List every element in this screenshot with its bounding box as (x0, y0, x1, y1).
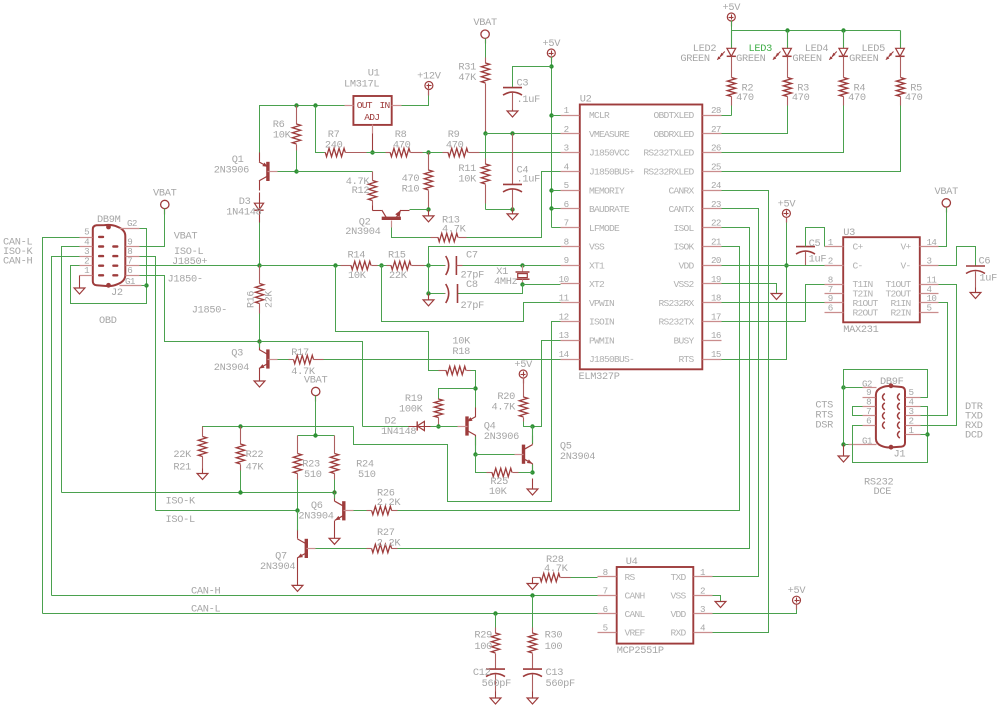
svg-text:R17: R17 (291, 347, 309, 359)
svg-text:R21: R21 (173, 462, 191, 474)
wire VPWIN tap drop (382, 266, 561, 322)
node J1850BUS+ branch junction (333, 263, 337, 267)
resistor R9 470 (443, 152, 449, 154)
node Q4 collector / Q5 base junction (473, 452, 477, 456)
wire R15 to VSS node (425, 265, 429, 267)
pin 11 T1OUT stub of U3 (920, 284, 939, 286)
node +5V / C3 junction (549, 64, 553, 68)
svg-text:VSS: VSS (589, 242, 605, 253)
svg-text:GREEN: GREEN (849, 53, 879, 65)
wire G2 stub join (844, 387, 863, 389)
svg-text:J1850-: J1850- (168, 274, 203, 286)
wire CAN-L line (43, 613, 598, 615)
svg-text:DB9M: DB9M (97, 214, 121, 226)
pin 2 C- stub of U3 (825, 265, 844, 267)
node BAUDRATE junction (549, 206, 553, 210)
node J1 pin1 DCD junction (925, 432, 929, 436)
ground at VSS2 (776, 293, 778, 295)
wire +5V to pin7 LFMODE (552, 227, 561, 229)
crystal X1 4MHz (522, 266, 524, 273)
svg-text:2N3904: 2N3904 (345, 226, 380, 238)
ground below Q5 (532, 479, 534, 490)
svg-text:470: 470 (848, 92, 866, 104)
svg-text:R18: R18 (452, 346, 470, 358)
resistor R25 10K (487, 472, 493, 474)
svg-text:BAUDRATE: BAUDRATE (589, 204, 630, 215)
pin 8 VSS stub of U2 (561, 246, 580, 248)
wire U4 TXD to U2 CANTX (713, 209, 759, 577)
svg-text:R30: R30 (545, 630, 563, 642)
svg-text:MEMORIY: MEMORIY (589, 185, 625, 196)
wire ISO-L line (156, 510, 298, 512)
pin ADJ lead of U1 (372, 125, 374, 134)
pin 2 stub of J2 (80, 265, 93, 267)
wire to C3 (513, 67, 552, 88)
svg-text:R29: R29 (474, 630, 492, 642)
power VBAT above R23/R24 rail (312, 387, 320, 395)
capacitor C8 27pF (429, 293, 445, 295)
ground at J2 pin1 (79, 288, 81, 289)
svg-text:6: 6 (603, 604, 608, 615)
pad pin 9 of J2 (112, 245, 118, 247)
wire J2 pin3 to CAN-H (52, 257, 80, 596)
wire VSS2 to ground (722, 284, 777, 294)
wire IN pin to +12V (402, 90, 429, 106)
resistor R31 47K (485, 58, 487, 64)
svg-text:2: 2 (564, 124, 569, 135)
svg-text:ISOL: ISOL (673, 223, 694, 234)
svg-text:ISO-L: ISO-L (166, 514, 196, 526)
wire R3 to U2 (722, 106, 788, 134)
wire R20 bottom to Q5 collector node (524, 422, 533, 427)
pin 14 J1850BUS- stub of U2 (561, 359, 580, 361)
pad pin 3 of J2 (98, 255, 104, 257)
resistor R20 4.7K (523, 378, 525, 398)
pin 11 VPWIN stub of U2 (561, 302, 580, 304)
resistor R24 510 (334, 436, 336, 454)
ground below C12 (495, 692, 497, 699)
svg-text:V-: V- (900, 260, 910, 271)
wire J1850- from J2 pin6 (140, 276, 260, 342)
svg-text:.1uF: .1uF (517, 174, 541, 186)
svg-text:+5V: +5V (542, 38, 561, 50)
wire Q1 base to R12 line (278, 171, 297, 173)
node VPWIN tap junction (379, 263, 383, 267)
LED LED5 GREEN (900, 31, 902, 49)
pad pin 2 of J2 (98, 265, 104, 267)
wire R11 bottom to C4 ground node (486, 209, 513, 211)
svg-text:DCE: DCE (874, 486, 892, 498)
svg-text:18: 18 (711, 293, 721, 304)
wire Q6 collector to ISO-K node (334, 493, 336, 499)
contact pin 1 of J1 (898, 431, 900, 438)
node XT2 junction (520, 282, 524, 286)
svg-text:17: 17 (711, 311, 721, 322)
node LED3 rail junction (785, 28, 789, 32)
wire Q5 base line (476, 454, 515, 456)
svg-text:VBAT: VBAT (304, 375, 328, 387)
pin IN stub of U1 (392, 105, 402, 107)
node Q1 base / R6 junction (294, 169, 298, 173)
pin 26 RS232TXLED stub of U2 (703, 152, 722, 154)
node VBAT rail junction (313, 433, 317, 437)
svg-text:TXD: TXD (670, 572, 686, 583)
transistor Q3 2N3904 NPN (266, 349, 269, 368)
wire J2 pin5 to CAN-L (43, 238, 80, 614)
node R22 bottom / ISO-K junction (238, 490, 242, 494)
wire R17 to U2 pin14 J1850BUS- (324, 359, 363, 361)
svg-text:15: 15 (711, 349, 721, 360)
svg-text:+5V: +5V (514, 359, 533, 371)
svg-text:CANH: CANH (625, 591, 645, 602)
wire R7 feed drop (316, 106, 325, 153)
svg-text:510: 510 (304, 469, 322, 481)
power VBAT at MAX231 (942, 199, 950, 207)
wire +5V to pin6 BAUDRATE (552, 208, 561, 210)
svg-text:VPWIN: VPWIN (589, 298, 614, 309)
wire R18 line from J1850BUS+ branch (336, 266, 439, 371)
svg-text:2N3904: 2N3904 (214, 362, 249, 374)
node CAN-L / R29 junction (493, 611, 497, 615)
svg-text:22K: 22K (265, 291, 276, 308)
wire J1 pin1 into jumper (921, 434, 928, 436)
wire Q2 base to R13 (392, 228, 431, 238)
power +5V at LEDs (727, 13, 735, 21)
pin 6 BAUDRATE stub of U2 (561, 208, 580, 210)
wire R27 to U2 pin22 ISOL (398, 228, 750, 549)
wire RS232TX to MAX231 T1IN (722, 285, 825, 322)
svg-text:VDD: VDD (670, 609, 686, 620)
pin 10 R1IN stub of U3 (920, 302, 939, 304)
node XT1 junction (520, 263, 524, 267)
resistor R10 470 (428, 153, 430, 171)
node J2 shield bottom (106, 283, 111, 288)
wire J2 pin8 ISO-L drop (140, 257, 156, 511)
svg-text:VREF: VREF (625, 628, 646, 639)
svg-text:3: 3 (564, 143, 569, 154)
wire G2 over the top to J1 pin5 (844, 370, 928, 398)
svg-text:5: 5 (603, 622, 608, 633)
pin 1 C+ stub of U3 (825, 246, 844, 248)
resistor R13 4.7K (431, 237, 439, 239)
pin 9 stub of J1 (863, 397, 876, 399)
wire Q6 base to R26 (354, 510, 367, 512)
svg-text:GREEN: GREEN (736, 53, 766, 65)
svg-text:510: 510 (358, 469, 376, 481)
ground below C13 (532, 692, 534, 699)
ground below C6 (975, 288, 977, 293)
resistor R17 4.7K (289, 359, 294, 361)
svg-text:ADJ: ADJ (364, 112, 379, 123)
svg-text:CANL: CANL (625, 609, 646, 620)
svg-text:+5V: +5V (778, 198, 797, 210)
capacitor C7 27pF (429, 265, 445, 267)
svg-text:BUSY: BUSY (673, 335, 694, 346)
svg-text:.1uF: .1uF (517, 94, 541, 106)
pin 14 V+ stub of U3 (920, 246, 939, 248)
svg-text:CANRX: CANRX (668, 185, 694, 196)
capacitor C13 560pF (523, 668, 542, 670)
wire XT1 to U2 pin9 (523, 265, 561, 267)
pin 1 stub of J1 (906, 434, 921, 436)
svg-text:G2: G2 (127, 218, 137, 229)
svg-text:ISO-K: ISO-K (166, 496, 197, 508)
ground below C4 (512, 210, 514, 214)
pin 22 ISOL stub of U2 (703, 227, 722, 229)
svg-text:VBAT: VBAT (935, 186, 959, 198)
svg-text:25: 25 (711, 161, 721, 172)
node Q2 emitter / R10 ground junction (426, 207, 430, 211)
svg-text:VBAT: VBAT (174, 231, 198, 243)
svg-text:U2: U2 (580, 94, 592, 106)
LED LED4 GREEN (843, 31, 845, 49)
svg-text:RXD: RXD (670, 628, 686, 639)
pin 13 PWMIN stub of U2 (561, 340, 580, 342)
ground below Q7 emitter (297, 568, 299, 586)
svg-text:R2OUT: R2OUT (853, 307, 879, 318)
svg-text:LFMODE: LFMODE (589, 223, 620, 234)
wire ISOIN path from U2 pin12 (354, 322, 561, 502)
svg-text:MCLR: MCLR (589, 110, 610, 121)
svg-text:23: 23 (711, 199, 721, 210)
node Q5 collector junction (530, 424, 534, 428)
wire R2 to U2 (731, 106, 733, 116)
wire ISO-K line (62, 492, 335, 494)
svg-text:OBD: OBD (99, 315, 117, 327)
svg-text:J1850BUS-: J1850BUS- (589, 354, 634, 365)
svg-text:4MHz: 4MHz (494, 276, 518, 288)
pin 3 J1850VCC stub of U2 (561, 152, 580, 154)
pin 3 stub of J2 (80, 256, 93, 258)
node J1850- / R16 / Q3 junction (257, 339, 261, 343)
svg-text:22K: 22K (389, 270, 408, 282)
svg-text:10K: 10K (458, 174, 477, 186)
pin 9 stub of J2 (126, 246, 140, 248)
svg-text:J1850BUS+: J1850BUS+ (589, 167, 635, 178)
wire Q7 base to R27 (316, 548, 367, 550)
svg-text:4.7K: 4.7K (491, 402, 516, 414)
wire Q3 base to R17 (278, 359, 289, 361)
svg-text:VBAT: VBAT (473, 17, 497, 29)
pin 20 VDD stub of U2 (703, 265, 722, 267)
pin 4 RXD stub of U4 (694, 632, 713, 634)
wire R25 line from Q4 collector node (476, 455, 487, 473)
svg-text:RTS: RTS (678, 354, 694, 365)
svg-text:CAN-H: CAN-H (3, 256, 33, 268)
wire ADJ to R8 (367, 152, 386, 154)
pin 19 VSS2 stub of U2 (703, 283, 722, 285)
pin 4 stub of J1 (906, 406, 921, 408)
svg-text:Q3: Q3 (231, 348, 243, 360)
transistor Q4 2N3906 PNP (465, 416, 468, 435)
diode D2 1N4148 (409, 426, 431, 428)
contact pin 9 of J1 (883, 394, 885, 401)
wire PWMIN from U2 pin13 (533, 341, 561, 427)
svg-text:VMEASURE: VMEASURE (589, 129, 630, 140)
wire Q7 collector to ISO-L node (297, 511, 299, 531)
svg-text:OBDTXLED: OBDTXLED (653, 110, 694, 121)
wire V- to C6 (939, 247, 976, 267)
pin 15 RTS stub of U2 (703, 359, 722, 361)
wire Q5 collector (532, 427, 534, 444)
LED LED2 GREEN (731, 31, 733, 49)
svg-text:C+: C+ (853, 242, 864, 253)
svg-text:CANTX: CANTX (668, 204, 694, 215)
svg-text:+5V: +5V (722, 2, 741, 14)
wire +5V LED rail (731, 21, 733, 31)
resistor R14 10K (341, 265, 352, 267)
resistor R15 22K (387, 265, 392, 267)
pin 2 VSS stub of U4 (694, 595, 713, 597)
contact pin 2 of J1 (898, 422, 900, 429)
node J2 shield top (106, 225, 111, 230)
svg-text:11: 11 (559, 293, 570, 304)
wire R18 to Q4 emitter column (471, 371, 476, 417)
svg-text:J1: J1 (894, 449, 906, 461)
transistor Q2 2N3904 NPN rotated (382, 217, 401, 220)
wire XT2 to C8 (458, 285, 523, 294)
wire R26 to U2 pin21 ISOK (398, 247, 740, 511)
svg-text:8: 8 (603, 567, 608, 578)
pin 21 ISOK stub of U2 (703, 246, 722, 248)
node J1 shield bottom (889, 445, 894, 450)
ground below Q3 emitter (259, 379, 261, 382)
svg-text:OUT: OUT (357, 100, 373, 111)
svg-text:22K: 22K (173, 449, 192, 461)
contact pin 4 of J1 (898, 403, 900, 410)
svg-text:470: 470 (905, 92, 923, 104)
wire J2 pin2 ground loop (71, 229, 147, 304)
pin 6 CANL stub of U4 (598, 613, 617, 615)
svg-text:100K: 100K (399, 404, 424, 416)
power +5V main (547, 49, 555, 57)
svg-text:R22: R22 (246, 449, 264, 461)
wire R19 top line (439, 389, 476, 399)
wire D2 line (363, 426, 409, 428)
svg-text:24: 24 (711, 180, 722, 191)
transistor Q6 2N3904 NPN (342, 501, 345, 520)
svg-text:DSR: DSR (815, 420, 833, 432)
node LED4 rail junction (841, 28, 845, 32)
pin 2 VMEASURE stub of U2 (561, 133, 580, 135)
wire +5V down to U2 pin1 MCLR chain (551, 57, 553, 228)
svg-text:4.7K: 4.7K (442, 224, 467, 236)
wire OUT rail to Q1 emitter (260, 106, 345, 156)
wire XT2 to U2 pin10 (523, 284, 561, 286)
power +5V at R20 (519, 370, 527, 378)
svg-text:C5: C5 (809, 238, 821, 250)
svg-text:10K: 10K (273, 130, 292, 142)
wire VSS drop from U2 pin8 (429, 247, 561, 294)
wire J1850+ to R14 (260, 265, 341, 267)
resistor R22 47K (240, 427, 242, 445)
resistor R3 470 (787, 57, 789, 78)
pin 7 T2IN stub of U3 (825, 293, 844, 295)
pin 8 stub of J1 (863, 406, 876, 408)
ground at J1 shell (843, 445, 845, 457)
pad pin 4 of J2 (98, 245, 104, 247)
pin 9 R1OUT stub of U3 (825, 302, 844, 304)
resistor R23 510 (297, 436, 299, 454)
power VBAT top (481, 30, 489, 38)
connector J2 DB9M OBD (93, 225, 126, 286)
svg-text:22: 22 (711, 218, 721, 229)
svg-text:8: 8 (564, 236, 569, 247)
resistor R26 2.2K (367, 510, 372, 512)
pin 3 stub of J1 (906, 415, 921, 417)
svg-text:470: 470 (446, 140, 464, 152)
svg-text:RS: RS (625, 572, 636, 583)
svg-text:10K: 10K (348, 270, 367, 282)
svg-text:26: 26 (711, 143, 721, 154)
IC U1 voltage regulator LM317L (353, 96, 391, 125)
resistor R21 22K (202, 427, 204, 437)
svg-text:XT1: XT1 (589, 260, 605, 271)
capacitor C6 1uF (966, 265, 985, 267)
resistor R28 4.7K (533, 577, 541, 579)
resistor R16 22K vertical (259, 266, 261, 284)
wire D3 to J1850+ line (259, 223, 261, 266)
node C8 / VSS junction (426, 291, 430, 295)
resistor R7 240 (325, 152, 326, 154)
node G1 junction (144, 283, 148, 287)
node VMEASURE junction R31/R11 (483, 131, 487, 135)
svg-text:C7: C7 (466, 250, 478, 262)
svg-text:J1850+: J1850+ (172, 256, 207, 268)
svg-text:J1850VCC: J1850VCC (589, 148, 630, 159)
pin 10 XT2 stub of U2 (561, 283, 580, 285)
svg-text:14: 14 (927, 237, 938, 248)
wire VBAT to J2 pin9 (140, 209, 165, 247)
capacitor C4 .1uF (512, 134, 514, 185)
svg-text:560pF: 560pF (546, 678, 576, 690)
svg-text:J2: J2 (111, 287, 123, 299)
wire VMEASURE line to U2 pin2 (486, 133, 561, 135)
pin 8 RS stub of U4 (598, 576, 617, 578)
pin 1 TXD stub of U4 (694, 576, 713, 578)
resistor R8 470 (386, 152, 391, 154)
node R19 top junction (473, 386, 477, 390)
capacitor C5 1uF (796, 246, 815, 248)
pin 23 CANTX stub of U2 (703, 208, 722, 210)
resistor R6 10K (296, 106, 298, 125)
svg-text:IN: IN (380, 100, 390, 111)
wire U4 VDD to +5V (713, 604, 797, 614)
pin 1 MCLR stub of U2 (561, 115, 580, 117)
resistor R2 470 (731, 57, 733, 78)
resistor R5 470 (900, 57, 902, 78)
svg-text:1uF: 1uF (809, 254, 827, 266)
wire R21/R22 rail (203, 427, 354, 437)
contact pin 5 of J1 (898, 394, 900, 401)
node C7 / VSS junction (426, 263, 430, 267)
svg-text:R10: R10 (402, 184, 420, 196)
ground below C3 (512, 110, 514, 112)
node G1 junction of J1 (841, 442, 845, 446)
contact pin 3 of J1 (898, 412, 900, 419)
svg-text:2N3904: 2N3904 (560, 451, 595, 463)
power VBAT at J2 pin9 (161, 200, 169, 208)
svg-text:2N3904: 2N3904 (260, 561, 295, 573)
resistor R18 10K (439, 370, 447, 372)
node G2 junction of J1 (841, 385, 845, 389)
wire G1 into loop (142, 285, 147, 287)
svg-text:6: 6 (564, 199, 569, 210)
svg-text:16: 16 (711, 330, 721, 341)
svg-text:MCP2551P: MCP2551P (617, 645, 664, 657)
svg-text:5: 5 (927, 303, 932, 314)
wire U4 RXD to U2 CANRX (713, 191, 769, 633)
